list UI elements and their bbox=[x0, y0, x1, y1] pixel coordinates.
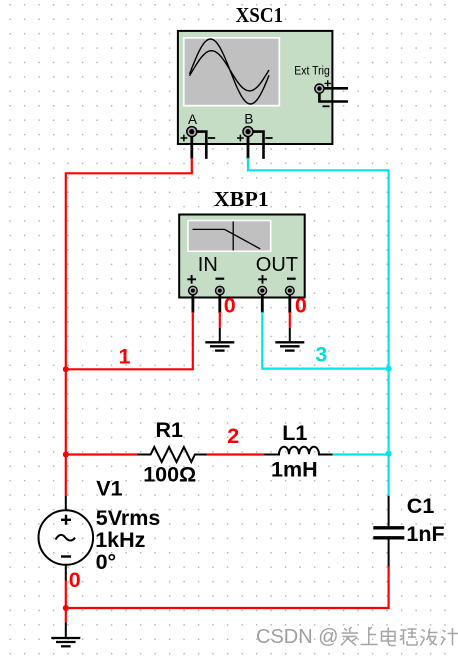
wire net1 junction to IN+ bbox=[66, 312, 193, 369]
XBP1 OUT+ terminal bbox=[258, 286, 267, 295]
wire net0 OUT- segment bbox=[289, 312, 291, 328]
capacitor C1 bbox=[373, 496, 404, 566]
XSC1 channel A - hook wire bbox=[192, 132, 207, 159]
ground G1 under XBP1 IN- bbox=[205, 328, 234, 351]
svg-text:3: 3 bbox=[315, 343, 327, 367]
XSC1 Ext Trig label bbox=[294, 66, 330, 78]
node junction net1 at R1 row bbox=[63, 452, 69, 458]
inductor L1 refdes label bbox=[282, 421, 307, 445]
wire net0 from V1 minus bbox=[65, 581, 67, 609]
XBP1 OUT plus sign bbox=[258, 275, 267, 284]
XBP1 OUT- pin wire bbox=[288, 292, 291, 313]
AC source V1 value label 5Vrms bbox=[96, 506, 161, 530]
XBP1 IN+ terminal bbox=[189, 286, 198, 295]
XSC1 Ext Trig + pigtail wire bbox=[319, 87, 348, 90]
XSC1 screen waveform trace 1 bbox=[190, 39, 270, 104]
svg-text:XBP1: XBP1 bbox=[214, 187, 269, 211]
wire net0 to ground G3 bbox=[65, 608, 67, 623]
svg-text:2: 2 bbox=[227, 424, 239, 448]
watermark CJK glyphs bbox=[341, 627, 458, 646]
node junction net0 bbox=[63, 605, 69, 611]
XSC1 Ext Trig plus sign bbox=[325, 80, 332, 86]
svg-text:0: 0 bbox=[224, 294, 236, 318]
XSC1 channel A terminal bbox=[187, 127, 197, 137]
watermark CSDN bbox=[256, 626, 339, 648]
resistor R1 bbox=[138, 447, 207, 462]
svg-text:0: 0 bbox=[69, 568, 81, 592]
svg-text:R1: R1 bbox=[156, 418, 184, 442]
wire net3 from L1 bbox=[333, 453, 389, 455]
svg-text:L1: L1 bbox=[282, 421, 307, 445]
XBP1 OUT minus sign bbox=[287, 278, 296, 280]
wire net0 IN- segment bbox=[219, 312, 221, 328]
AC source V1 refdes label bbox=[96, 477, 122, 501]
wire net1 down left rail bbox=[65, 369, 67, 454]
svg-text:1mH: 1mH bbox=[271, 457, 318, 481]
svg-text:100Ω: 100Ω bbox=[143, 462, 196, 486]
XSC1 Ext Trig terminal bbox=[315, 84, 324, 93]
XSC1 Ext Trig minus sign bbox=[323, 105, 330, 107]
bode plotter XBP1 body bbox=[179, 215, 305, 298]
XBP1 IN+ pin wire bbox=[191, 292, 194, 313]
resistor R1 refdes label bbox=[156, 418, 184, 442]
resistor R1 value label bbox=[143, 462, 196, 486]
XSC1 channel B minus sign bbox=[265, 137, 272, 139]
XSC1 screen waveform trace 2 bbox=[190, 51, 270, 91]
svg-text:V1: V1 bbox=[96, 477, 122, 501]
node 0 label at V1 bbox=[69, 568, 81, 592]
oscilloscope U_XSC1 label bbox=[236, 3, 284, 27]
node 0 label at OUT- bbox=[295, 294, 307, 318]
XBP1 OUT label bbox=[256, 254, 298, 276]
XBP1 OUT- terminal bbox=[286, 286, 295, 295]
node 0 label at IN- bbox=[224, 294, 236, 318]
wire net1 to R1 bbox=[66, 453, 138, 455]
svg-text:1: 1 bbox=[119, 345, 131, 369]
node 3 label bbox=[315, 343, 327, 367]
XSC1 channel B label bbox=[244, 111, 253, 126]
node 1 label bbox=[119, 345, 131, 369]
XSC1 Ext Trig - pigtail wire bbox=[319, 90, 348, 102]
svg-text:Ext Trig: Ext Trig bbox=[294, 66, 330, 78]
svg-text:1nF: 1nF bbox=[406, 522, 444, 546]
oscilloscope XSC1 body bbox=[178, 31, 333, 144]
XSC1 channel A plus sign bbox=[181, 135, 188, 142]
XBP1 screen response curve bbox=[193, 221, 261, 250]
node junction net3 at L1 row bbox=[386, 451, 392, 457]
XBP1 IN minus sign bbox=[216, 278, 225, 280]
XBP1 IN- terminal bbox=[216, 286, 225, 295]
inductor L1 bbox=[264, 447, 333, 455]
AC source V1 value label 1kHz bbox=[95, 528, 145, 552]
wire net3 down right rail bbox=[388, 369, 390, 454]
XSC1 channel B terminal bbox=[243, 127, 253, 137]
svg-text:XSC1: XSC1 bbox=[236, 3, 284, 27]
wire net2 between R1 and L1 bbox=[207, 453, 264, 455]
svg-text:B: B bbox=[244, 111, 253, 126]
bode plotter U_XBP1 label bbox=[214, 187, 269, 211]
XSC1 channel A label bbox=[188, 112, 197, 127]
capacitor C1 value label bbox=[406, 522, 444, 546]
AC source V1 bbox=[39, 496, 94, 581]
XBP1 OUT+ pin wire bbox=[261, 292, 264, 313]
svg-text:C1: C1 bbox=[407, 494, 435, 518]
svg-text:5Vrms: 5Vrms bbox=[96, 506, 161, 530]
node junction net3 bbox=[386, 366, 392, 372]
wire net1 from A terminal to left rail bbox=[66, 158, 192, 369]
node junction net1 bbox=[63, 366, 69, 372]
svg-text:IN: IN bbox=[198, 254, 218, 276]
svg-text:A: A bbox=[188, 112, 197, 127]
XBP1 IN label bbox=[198, 254, 218, 276]
XBP1 IN plus sign bbox=[187, 275, 196, 284]
XSC1 channel B - hook wire bbox=[248, 132, 264, 159]
ground G3 under V1 bbox=[51, 623, 80, 647]
svg-text:0°: 0° bbox=[96, 550, 117, 574]
svg-text:OUT: OUT bbox=[256, 254, 298, 276]
svg-text:1kHz: 1kHz bbox=[95, 528, 145, 552]
XSC1 channel B pin wire bbox=[247, 134, 250, 159]
XSC1 channel B plus sign bbox=[237, 135, 244, 142]
inductor L1 value label bbox=[271, 457, 318, 481]
wire net0 bottom rail to C1 bbox=[66, 566, 389, 608]
wire net3 from OUT+ bbox=[262, 312, 388, 369]
capacitor C1 refdes label bbox=[407, 494, 435, 518]
node 2 label bbox=[227, 424, 239, 448]
ground G2 under XBP1 OUT- bbox=[275, 328, 304, 351]
XSC1 channel A minus sign bbox=[208, 137, 215, 139]
wire net1 to V1 plus bbox=[65, 455, 67, 497]
svg-text:CSDN @: CSDN @ bbox=[256, 626, 339, 648]
wire net3 to C1 bbox=[388, 454, 390, 496]
wire net3 from B terminal to right rail bbox=[248, 158, 389, 369]
AC source V1 value label 0 deg bbox=[96, 550, 117, 574]
XBP1 IN- pin wire bbox=[218, 292, 221, 313]
svg-text:0: 0 bbox=[295, 294, 307, 318]
XSC1 channel A pin wire bbox=[190, 134, 193, 159]
